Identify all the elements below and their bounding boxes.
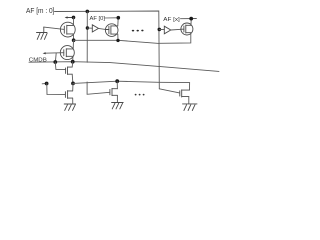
wire Q4 source return to bus [159, 33, 191, 44]
wire buffer U1 input [87, 27, 92, 29]
wire Q2 gate stub with arrow [45, 52, 64, 55]
wire buffer U1 output to Q3 gate [99, 28, 106, 29]
transistor Q3 (AF[0] cell) [105, 24, 118, 37]
wire rail 2 from node E to M4 drain [73, 81, 190, 90]
node mid (Q1 source / Q2 drain) [72, 38, 76, 42]
transistor Q4 (AF[x] cell) [181, 23, 193, 35]
wire buffer bus vertical [86, 11, 88, 62]
ground G4 [183, 104, 198, 111]
wire M1 source down to node E [71, 74, 74, 83]
transistor M3 [65, 91, 72, 99]
wire Q2 drain from mid node [72, 40, 74, 49]
node E [71, 82, 75, 86]
wire NMOS M4 gate line [159, 89, 179, 93]
ground G1 [37, 27, 48, 39]
node AF[0] [117, 16, 121, 20]
wire top rail AF bus [55, 11, 160, 89]
node mid rail at Q3 source [116, 39, 119, 42]
svg-text:AF [x]: AF [x] [163, 17, 180, 23]
wire NMOS M1 gate path from node A [55, 62, 65, 69]
buffer U2 [164, 26, 171, 34]
transistor M5 [110, 88, 118, 95]
svg-text:AF [m : 0]: AF [m : 0] [26, 8, 55, 15]
wire M5 gate tap from rail 2 [87, 82, 110, 94]
wire M3 gate path from node H [47, 84, 65, 95]
wire M3 drain up to node E [72, 83, 74, 91]
node H stub [42, 83, 45, 85]
wire Q1 drain vertical [73, 17, 75, 25]
ground G2 [64, 104, 75, 110]
wire M4 source down [188, 97, 190, 104]
wire M5 source down [116, 95, 118, 102]
wire AF[x] label to node and stub [181, 18, 197, 20]
wire buffer U2 output to Q4 gate [171, 28, 181, 31]
dots ellipsis mid row [132, 30, 134, 32]
node AF[x] [189, 17, 193, 21]
node A CMDB [53, 60, 57, 64]
transistor M1 [66, 67, 73, 75]
transistor M4 bottom right [180, 90, 190, 97]
wire mid rail (source return) [74, 40, 159, 43]
dots ellipsis bottom row [135, 94, 137, 96]
wire Q1 gate from ground [44, 27, 65, 29]
ground G3 [112, 103, 124, 109]
wire AF[0] label to node [105, 17, 117, 19]
wire M1 drain up to node B [71, 62, 74, 67]
wire Q2 source down to CMDB rail node [72, 56, 74, 61]
wire Q3 source down to mid rail [117, 34, 119, 40]
svg-text:AF [0]: AF [0] [90, 16, 106, 22]
wire Q2 gate tap down to node A [54, 53, 57, 62]
transistor Q2 left lower (circle symbol) [60, 46, 74, 60]
wire M5 drain up to node F [116, 81, 118, 89]
node buffer U2 input tap [158, 28, 162, 32]
arrow stub at Q1 drain node [66, 17, 72, 19]
node Q1 drain [72, 16, 76, 20]
buffer U1 [92, 25, 98, 32]
node buffer U1 input tap [86, 26, 89, 29]
wire Q3 drain up to AF[0] node [117, 18, 119, 26]
node B bus on CMDB rail [71, 60, 75, 64]
wire CMDB rail [29, 62, 219, 72]
node F [115, 79, 119, 83]
wire buffer U2 input [159, 29, 164, 31]
wire M3 source down [72, 98, 74, 104]
node on top rail feeding buffer bus [86, 10, 90, 14]
transistor Q1 left top (circle symbol) [60, 22, 75, 37]
wire Q4 drain up to AF[x] node [190, 19, 192, 26]
wire Q1 source to mid node [72, 34, 74, 40]
